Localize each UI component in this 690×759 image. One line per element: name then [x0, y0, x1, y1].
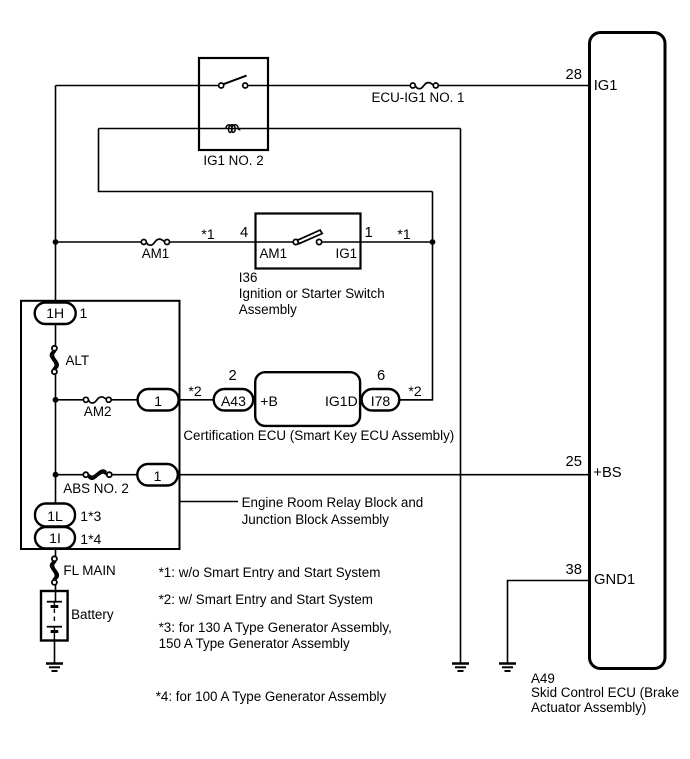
wire: ground drop x=460.5	[460, 129, 462, 664]
label AM1 (fuse)	[136, 246, 176, 262]
engine room relay block box	[21, 301, 180, 549]
wire: coil horizontal y=128.5	[99, 128, 461, 130]
ground (GND1)	[499, 664, 516, 672]
note *4	[156, 689, 387, 705]
connector label 1 (ABS row)	[137, 468, 178, 484]
pin number 25	[542, 455, 582, 470]
fuse AM2	[83, 397, 111, 403]
label A49 skid control ECU	[531, 672, 679, 716]
label I36 ignition or starter switch assembly	[239, 270, 385, 318]
label ALT	[66, 353, 90, 369]
pin label IG1D	[325, 393, 358, 409]
label *2 (left)	[185, 383, 205, 399]
skid control ECU box A49	[590, 33, 666, 669]
pin number 1 (switch)	[365, 226, 373, 241]
fusible link ALT	[50, 346, 58, 374]
relay switch blade	[223, 76, 246, 85]
connector label 1H	[35, 305, 76, 321]
label *1 (right)	[394, 226, 414, 242]
label ECU-IG1 NO. 1	[368, 90, 468, 106]
connector label I78	[362, 393, 400, 409]
relay coil	[226, 125, 241, 133]
wire: relay switch to ECU-IG1 NO.1 fuse	[248, 85, 410, 87]
pin number 28	[542, 68, 582, 83]
note *1	[159, 565, 381, 581]
label IG1 NO. 2	[194, 153, 274, 169]
note *2	[159, 592, 373, 608]
ignition switch blade (hollow)	[298, 230, 323, 244]
connector label 1L	[35, 508, 75, 524]
connector I78	[362, 389, 400, 411]
wire: ABS row y=474.7	[56, 474, 589, 476]
fuse ECU-IG1 NO. 1	[410, 83, 438, 89]
fusible link FL MAIN	[51, 556, 59, 585]
label *1 (left)	[198, 226, 218, 242]
label FL MAIN	[63, 563, 115, 579]
pin number 4	[240, 226, 248, 241]
label AM1 (switch)	[260, 246, 288, 262]
label IG1 (switch)	[336, 246, 358, 262]
pin label +BS	[593, 466, 621, 481]
junction dot at AM1 row / left rail	[53, 239, 59, 245]
pin label IG1	[594, 79, 618, 94]
connector 1 (AM2 row)	[138, 389, 179, 411]
wire: left vertical rail x=55.5 (segments between symbols)	[55, 86, 56, 664]
note *3	[159, 620, 392, 652]
label ABS NO. 2	[63, 481, 129, 497]
pin number 2	[229, 369, 237, 384]
pin number 6	[377, 369, 385, 384]
battery cell plates	[47, 602, 62, 641]
ground (center, relay coil)	[452, 664, 469, 672]
wire: vertical x=432.5 from y=191.5 down to I78 branch	[399, 192, 432, 400]
wire: fuse to skid control ECU pin 28	[438, 85, 588, 87]
label *2 (right)	[405, 383, 425, 399]
label AM2	[78, 404, 118, 420]
junction dot at AM2 row / left rail	[53, 397, 59, 403]
connector 1 (ABS row)	[137, 464, 178, 486]
wire: GND1 from ECU to ground	[508, 581, 589, 664]
pin label +B	[260, 393, 278, 409]
ground (battery)	[46, 664, 63, 672]
label certification ECU	[183, 428, 454, 444]
connector A43	[214, 389, 254, 411]
relay box IG1 NO. 2	[199, 58, 268, 150]
battery box	[41, 591, 68, 641]
fusible link ABS NO. 2	[83, 470, 112, 479]
wire: coil left leg down and across y=191.5	[99, 129, 433, 192]
label 1*4	[80, 531, 101, 547]
ignition switch contacts	[293, 239, 322, 244]
pin number 38	[542, 563, 582, 578]
connector 1I	[35, 527, 75, 549]
junction dot at AM1 row / x=432.5	[430, 239, 436, 245]
pin number 1 (1H)	[80, 305, 88, 321]
wire: AM1 row y=242	[56, 241, 433, 243]
connector 1H	[35, 303, 76, 325]
fuse AM1	[141, 239, 169, 245]
pin label GND1	[594, 573, 635, 588]
connector label 1I	[35, 530, 75, 546]
connector label 1 (AM2 row)	[138, 393, 179, 409]
ignition switch box I36	[256, 214, 361, 269]
connector label A43	[214, 393, 254, 409]
connector 1L	[35, 504, 75, 527]
relay switch contacts	[219, 83, 248, 88]
junction dot at ABS row / left rail	[53, 472, 59, 478]
wire: top rail y=85.5 from left rail to relay box	[56, 85, 219, 87]
certification ECU box	[255, 372, 360, 426]
leader line to block label	[180, 501, 239, 503]
label 1*3	[80, 508, 101, 524]
wire: AM2 row y=399.8	[56, 399, 433, 401]
label engine room relay block	[242, 495, 424, 529]
label Battery	[71, 607, 113, 623]
